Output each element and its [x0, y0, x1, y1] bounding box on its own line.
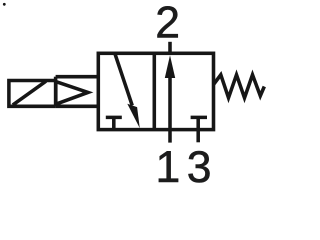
- blocked port T (left cell, port 1): [106, 117, 122, 129]
- svg-text:3: 3: [187, 143, 212, 185]
- solenoid box divider: [54, 77, 58, 107]
- port 3 stub: [196, 130, 200, 143]
- flow arrow diagonal head: [127, 104, 140, 128]
- port 2 stub: [168, 42, 172, 54]
- flow arrow diagonal (left cell) shaft: [115, 53, 132, 105]
- solenoid coil box: [9, 81, 56, 107]
- pilot triangle: [56, 82, 88, 105]
- stray dot top-left: [3, 3, 6, 6]
- pilot box (taller): [56, 77, 99, 107]
- flow arrow up (right cell, 1 to 2) shaft: [168, 74, 172, 130]
- port 1 stub: [168, 130, 172, 143]
- solenoid coil diagonal: [13, 81, 46, 105]
- return spring: [214, 75, 265, 98]
- valve position divider: [153, 53, 157, 129]
- 3/2-way solenoid valve schematic: [0, 0, 272, 185]
- flow arrow up head: [165, 55, 175, 78]
- svg-text:1: 1: [156, 143, 181, 185]
- svg-text:2: 2: [155, 0, 180, 47]
- blocked port T (right cell, port 3): [191, 117, 207, 129]
- valve body outline: [98, 53, 213, 129]
